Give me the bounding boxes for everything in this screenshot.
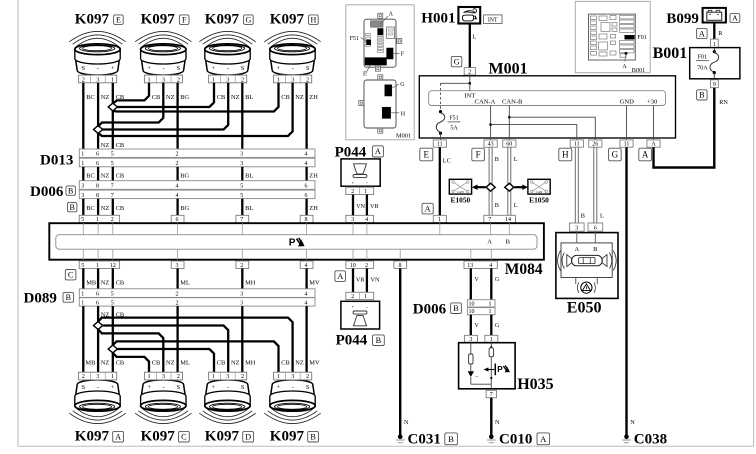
M001 internal INT connection [441,76,472,91]
svg-text:2: 2 [241,76,244,83]
svg-text:NZ: NZ [231,360,240,367]
svg-text:K097: K097 [75,429,110,445]
svg-text:5: 5 [111,300,114,306]
svg-text:M001: M001 [489,61,528,78]
svg-text:7: 7 [111,193,114,199]
svg-text:C038: C038 [634,431,667,447]
svg-text:D006: D006 [413,301,447,317]
svg-text:+: + [111,65,115,72]
svg-text:CB: CB [116,94,125,101]
svg-text:CB: CB [116,205,125,212]
svg-text:-: - [97,65,99,72]
svg-text:F51: F51 [350,36,359,42]
fuse box B001 [690,48,740,79]
wire NZ K097H-3 to NZ junction [98,83,293,136]
svg-text:NZ: NZ [101,94,110,101]
svg-text:K097: K097 [141,429,176,445]
INT tag box [484,15,503,24]
svg-text:CB: CB [152,94,161,101]
svg-text:1: 1 [277,373,280,380]
connector D006 center row 2 [467,308,495,316]
svg-text:A: A [651,142,656,148]
svg-text:3: 3 [291,373,294,380]
svg-text:2: 2 [241,373,244,380]
svg-text:NZ: NZ [101,205,110,212]
svg-text:NZ: NZ [295,94,304,101]
svg-text:L: L [472,34,476,41]
svg-text:-: - [163,384,165,391]
letter box A right of battery [730,14,740,23]
svg-text:E1050: E1050 [451,196,471,205]
svg-text:A: A [337,272,343,281]
svg-text:9: 9 [713,82,716,88]
speaker K097 B [264,372,320,423]
wire VN P044A-2 to M084 pin 3 [352,195,354,216]
svg-text:CB: CB [116,142,125,149]
svg-text:B: B [593,246,597,253]
microphone H001 [458,7,480,24]
svg-text:B: B [495,202,499,209]
svg-text:ML: ML [180,279,190,286]
tweeter P044 B [341,301,380,329]
svg-text:8: 8 [96,184,99,190]
junction CB top [108,103,117,111]
svg-text:6: 6 [96,161,99,167]
svg-text:3: 3 [81,193,84,199]
svg-text:3: 3 [226,373,229,380]
hands-free control H035 [459,343,515,389]
wire CB K097F-1 to CB junction [113,83,149,104]
svg-text:K097: K097 [270,429,305,445]
svg-text:B: B [495,156,499,163]
svg-text:B099: B099 [666,11,699,27]
letter box G at M001 pin 2 [451,56,462,66]
svg-text:ML: ML [180,360,190,367]
svg-text:6: 6 [305,184,308,190]
svg-text:F01: F01 [698,53,708,60]
svg-text:+30: +30 [647,99,658,106]
svg-text:6: 6 [305,193,308,199]
svg-text:G: G [495,276,500,283]
svg-text:A: A [699,29,705,38]
wires D006 to M084 top pins [83,199,306,216]
junction CB bottom [108,345,117,353]
svg-text:CAN: CAN [536,190,543,194]
svg-text:1: 1 [489,309,492,315]
M001 internal GND net [626,106,628,140]
svg-text:3: 3 [96,76,99,83]
svg-text:+: + [277,384,281,391]
wire NZ K097F-3 to NZ junction [98,83,163,126]
wire labels VN VR [356,203,379,210]
svg-text:2: 2 [176,152,179,158]
svg-text:V: V [474,276,479,283]
svg-text:A: A [115,433,121,442]
letter box A below M084 pin 10 [335,271,346,282]
wire L CAN-B M001 pin 60 to M084 pin 14 [508,147,511,215]
M001 connector letter boxes E F H G A [420,148,652,161]
svg-text:1: 1 [111,76,114,83]
svg-text:MH: MH [245,360,256,367]
svg-text:+: + [212,384,216,391]
label P044 B [336,333,385,349]
M084 Parrot logo [289,238,305,249]
svg-text:2: 2 [82,76,85,83]
wire NZ D089-6 to NZ junction bottom [97,306,99,322]
svg-text:B: B [448,434,454,444]
svg-text:A: A [574,246,579,253]
svg-text:-: - [292,65,294,72]
svg-text:3: 3 [162,76,165,83]
svg-text:BL: BL [245,173,253,180]
svg-text:VR: VR [370,203,379,210]
svg-text:MB: MB [85,360,95,367]
wire CB junction to D013-5 [112,111,114,149]
B001 location illustration [575,1,650,74]
svg-text:L: L [514,202,518,209]
wire NZ junction to K097A-3 [97,329,99,372]
svg-text:S: S [241,65,245,72]
svg-text:5: 5 [81,263,84,269]
svg-text:CB: CB [116,279,125,286]
svg-text:A: A [732,14,738,23]
svg-text:NZ: NZ [101,173,110,180]
svg-text:11: 11 [624,142,630,148]
wire labels top speakers [86,94,318,101]
M001 bottom pin boxes [433,140,660,148]
svg-text:BC: BC [86,94,95,101]
svg-text:P044: P044 [335,144,367,160]
connector D006 label with box B [30,184,75,200]
svg-text:C: C [181,433,187,442]
fuse F51 5A [436,110,460,140]
wire labels between D006 and M084 [86,205,318,212]
svg-text:L: L [600,213,604,220]
radio M084 box [49,223,544,260]
letter box C below M084 [65,270,76,280]
svg-text:MH: MH [245,279,256,286]
wire VR M084 pin 10 to P044B-2 [352,268,354,292]
svg-text:A: A [375,147,381,156]
svg-text:B001: B001 [632,67,645,74]
svg-text:1: 1 [81,300,84,306]
svg-text:5: 5 [240,193,243,199]
svg-text:3: 3 [176,263,179,269]
svg-text:10: 10 [469,309,475,315]
svg-text:+: + [147,65,151,72]
svg-text:43: 43 [488,142,494,148]
svg-text:B: B [699,91,705,100]
speaker K097 G [199,31,255,83]
svg-text:2: 2 [306,76,309,83]
svg-text:+: + [111,384,115,391]
P044 B pin row 2 1 [346,292,374,300]
label K097 C [141,429,190,445]
svg-text:B: B [70,203,75,212]
M001 internal CAN-A net [489,106,576,140]
connector D089 label with box B [24,291,74,307]
wire CB K097G-1 to CB junction [117,83,214,107]
svg-text:+: + [147,384,151,391]
svg-text:1: 1 [489,302,492,308]
svg-text:K097: K097 [141,12,176,28]
svg-text:BG: BG [180,173,189,180]
svg-text:11: 11 [574,142,580,148]
label K097 E [75,12,123,28]
wire LC M001 pin 11 to M084 pin 1 [439,147,441,215]
connector D089 row 1 [79,289,315,298]
ground C031 [396,435,405,443]
svg-text:E: E [116,15,121,24]
svg-text:2: 2 [82,373,85,380]
svg-text:11: 11 [437,142,443,148]
wire BL K097G-2 to D013-3 [241,83,243,149]
svg-text:-: - [292,384,294,391]
svg-text:1: 1 [81,152,84,158]
svg-text:4: 4 [305,300,308,306]
M001 internal +30 net [653,106,655,140]
svg-text:3: 3 [96,373,99,380]
svg-text:1: 1 [364,189,367,195]
svg-text:3: 3 [240,161,243,167]
wire labels B L upper [495,156,518,163]
label K097 B [270,429,319,445]
svg-text:10: 10 [469,302,475,308]
svg-text:B: B [581,213,585,220]
svg-text:-: - [97,384,99,391]
svg-text:3: 3 [81,184,84,190]
svg-text:NZ: NZ [295,360,304,367]
svg-text:CB: CB [116,360,125,367]
speaker K097 A [69,372,125,423]
svg-text:2: 2 [306,373,309,380]
connector D089 row 2 [79,298,315,307]
wire labels VR VN [356,277,380,284]
svg-text:3: 3 [240,292,243,298]
connector D006 row 1 [79,181,315,190]
svg-text:S: S [241,384,245,391]
svg-text:C010: C010 [499,431,532,447]
svg-text:6: 6 [594,226,597,232]
wire NZ K097E-3 to NZ junction [97,83,99,126]
svg-text:F01: F01 [637,35,646,41]
svg-text:S: S [177,65,181,72]
svg-text:A: A [425,204,431,213]
wire CB D089-5 to CB junction bottom [112,306,114,345]
svg-text:CB: CB [116,173,125,180]
wire labels V G upper [474,276,500,283]
svg-text:NZ: NZ [166,94,175,101]
ground C038 [622,435,631,443]
CAN node E1050 right [528,179,550,194]
wires M084 to D089 [83,268,306,288]
svg-text:F51: F51 [449,116,458,122]
svg-text:E1050: E1050 [529,196,549,205]
svg-text:1: 1 [148,76,151,83]
wire MV D089-4 to K097B-2 [305,306,307,372]
wire B CAN-A M001 pin 11H to E050 pin 3 [575,147,578,223]
svg-text:C: C [68,271,74,280]
svg-text:+: + [277,65,281,72]
svg-text:A: A [642,150,649,160]
svg-text:6: 6 [96,292,99,298]
label K097 H [270,12,318,28]
svg-text:MV: MV [309,279,320,286]
wire V M084 pin 13 to D006 [470,268,472,299]
H035 pin boxes 3 1 [465,335,498,343]
svg-text:4: 4 [176,193,179,199]
svg-text:+: + [212,65,216,72]
svg-text:P044: P044 [336,333,368,349]
svg-text:3: 3 [226,76,229,83]
P044 A pin row 2 1 [346,187,374,195]
svg-text:2: 2 [240,263,243,269]
svg-text:2: 2 [365,263,368,269]
junction diamond CAN-B with arrow to E1050 [505,183,528,191]
wire V D006 to H035 pin 3 [470,315,472,336]
connector D006 row 2 [79,190,315,199]
svg-text:1: 1 [81,161,84,167]
control unit M001 box [419,76,675,138]
svg-text:CAN-A: CAN-A [475,99,496,106]
svg-text:VN: VN [371,277,380,284]
svg-text:+: + [351,181,354,186]
wire BC K097E-2 to D013-1 [82,83,84,149]
E050 pin boxes 3 6 [569,223,602,232]
svg-text:1: 1 [364,294,367,300]
svg-text:2: 2 [351,189,354,195]
svg-text:B: B [376,336,382,345]
svg-text:P: P [289,238,296,249]
svg-text:-: - [163,65,165,72]
svg-text:G: G [246,15,252,24]
svg-text:F: F [182,15,187,24]
svg-text:2: 2 [176,161,179,167]
svg-text:-: - [227,384,229,391]
wire R battery to B001 pin 1 [713,23,715,40]
svg-text:H001: H001 [421,10,455,26]
speaker K097 F [135,31,191,83]
connector D006 center row 1 [467,300,495,308]
wire N M001 pin 11G to ground C038 [625,147,627,435]
B001 pin 1 box [711,39,719,48]
svg-text:6: 6 [96,300,99,306]
svg-text:BC: BC [86,173,95,180]
speaker K097 D [199,372,255,423]
junction diamond CAN-A with arrow to E1050 [472,183,495,191]
svg-text:D: D [245,433,251,442]
svg-text:G: G [400,82,405,88]
svg-text:NZ: NZ [101,360,110,367]
svg-text:K097: K097 [75,12,110,28]
svg-text:NZ: NZ [231,94,240,101]
label K097 A [75,429,124,445]
svg-text:A: A [622,64,627,70]
svg-text:MV: MV [309,360,320,367]
svg-text:5: 5 [111,152,114,158]
letter box A above M084 pin 1 [422,203,433,214]
svg-text:2: 2 [468,69,471,75]
M001 internal CAN-B net [508,106,595,140]
svg-text:M001: M001 [396,132,411,139]
svg-text:60: 60 [506,142,512,148]
svg-text:A: A [487,239,492,246]
svg-text:CB: CB [281,360,290,367]
wire labels B L lower [495,202,518,209]
svg-text:N: N [495,419,500,426]
svg-text:2: 2 [176,292,179,298]
letter box B below D006 [68,202,77,211]
svg-text:4: 4 [305,161,308,167]
svg-text:BC: BC [86,205,95,212]
svg-text:B: B [310,433,316,442]
connector D013 row 2 [79,158,315,167]
wire VN M084 pin 2 to P044B-1 [366,268,368,292]
svg-text:5: 5 [111,292,114,298]
svg-text:1: 1 [148,373,151,380]
svg-text:C031: C031 [408,431,441,447]
svg-text:INT: INT [488,18,498,24]
wire VR P044A-1 to M084 pin 4 [366,195,368,216]
svg-text:S: S [306,65,310,72]
svg-text:D089: D089 [24,291,57,307]
connector D006 center label with box B [413,301,462,317]
svg-text:ZH: ZH [309,205,318,212]
connector D013 label [40,152,73,168]
svg-text:12: 12 [110,263,116,269]
M001 internal net names [464,93,658,106]
wire G D006 to H035 pin 1 [490,315,492,336]
wire NZ K097G-3 to NZ junction [103,83,229,130]
svg-text:BL: BL [245,205,253,212]
svg-text:H: H [562,150,569,160]
svg-text:B: B [506,239,510,246]
M001 location illustration [346,5,414,140]
B001 pin 9 box [711,80,719,88]
svg-text:V: V [474,322,479,329]
wire CB junction to K097A-1 [112,353,114,372]
svg-text:10: 10 [350,263,356,269]
svg-text:3: 3 [240,300,243,306]
label K097 D [205,429,254,445]
svg-text:CB: CB [217,94,226,101]
label P044 A [335,144,384,160]
CAN node E1050 left [449,179,471,194]
speaker K097 C [135,372,191,423]
wire MB D089-1 to K097A-2 [82,306,84,372]
wire RN B001 pin 9 to M001 pin A [654,88,715,168]
svg-text:N: N [404,419,409,426]
M001 internal dashed feed to fuse F51 [440,83,442,111]
svg-text:4: 4 [489,263,492,269]
svg-text:D013: D013 [40,152,73,168]
M084 internal pin names A B [487,239,510,246]
wire N H035 pin 7 to ground C010 [490,398,492,435]
svg-text:CB: CB [281,94,290,101]
ground C010 [487,435,496,443]
svg-text:N: N [630,419,635,426]
svg-text:G: G [495,322,500,329]
svg-text:S: S [306,384,310,391]
svg-text:~: ~ [475,375,478,380]
svg-text:-: - [227,65,229,72]
svg-text:4: 4 [176,184,179,190]
svg-text:3: 3 [291,76,294,83]
svg-text:MB: MB [86,279,96,286]
wire labels between M084 and D089 [86,279,320,286]
wire labels B L at E050 [581,213,604,220]
svg-text:B001: B001 [653,45,688,62]
